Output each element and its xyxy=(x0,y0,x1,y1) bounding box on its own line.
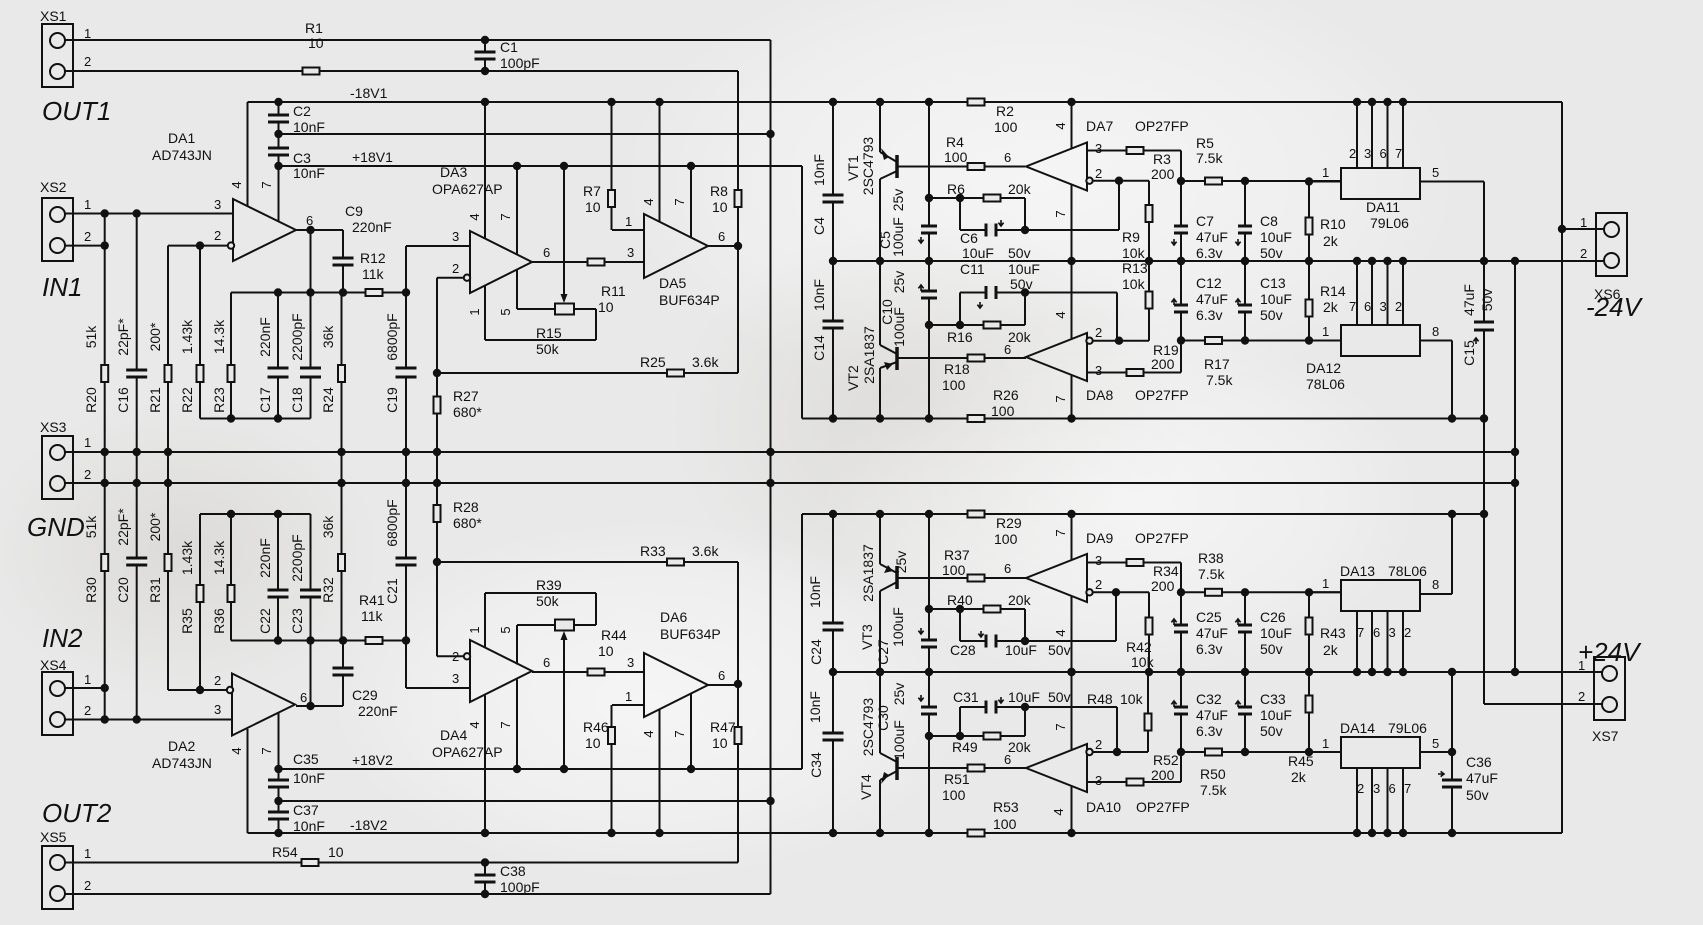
junction xyxy=(1067,414,1075,422)
svg-text:OUT1: OUT1 xyxy=(42,96,111,126)
svg-text:R18: R18 xyxy=(944,361,970,377)
resistor R45 column xyxy=(1308,672,1310,752)
svg-text:R45: R45 xyxy=(1288,753,1314,769)
wire: DA1 pin7 + C2/C3 stack xyxy=(278,102,280,222)
resistor R35 xyxy=(197,585,204,602)
resistor R52 xyxy=(1127,779,1144,786)
wire: DA14 pin5 xyxy=(1420,751,1452,753)
wire: +18V2 rail y769 xyxy=(279,768,803,770)
junction xyxy=(829,668,837,676)
svg-text:7: 7 xyxy=(1053,395,1068,402)
junction xyxy=(1241,588,1249,596)
wire: OUT1 pin2 net with R1 xyxy=(65,70,739,72)
junction xyxy=(687,162,695,170)
svg-text:C6: C6 xyxy=(960,230,978,246)
svg-text:47uF: 47uF xyxy=(1196,625,1228,641)
svg-text:C12: C12 xyxy=(1196,275,1222,291)
wire: DA13 pin8 xyxy=(1420,593,1452,595)
svg-text:C19: C19 xyxy=(384,387,400,413)
svg-text:XS5: XS5 xyxy=(40,829,67,845)
junction xyxy=(274,130,282,138)
svg-text:100: 100 xyxy=(942,787,966,803)
capacitor C10 column x929 (100uF 25v) xyxy=(928,261,930,419)
wire: +24V rail top block y418 xyxy=(802,418,1484,420)
junction xyxy=(1021,703,1029,711)
junction xyxy=(274,829,282,837)
wire: DA5 pin4 xyxy=(659,102,661,222)
junction xyxy=(925,194,933,202)
resistor R2 xyxy=(968,99,985,106)
svg-text:6: 6 xyxy=(1364,299,1371,314)
svg-text:10: 10 xyxy=(308,35,324,51)
svg-text:R6: R6 xyxy=(947,181,965,197)
junction xyxy=(227,510,235,518)
svg-text:2SA1837: 2SA1837 xyxy=(860,544,876,602)
wire: R24/R32 column x341 xyxy=(341,293,343,641)
svg-text:25v: 25v xyxy=(891,683,907,706)
resistor R30 xyxy=(101,554,108,571)
svg-text:C25: C25 xyxy=(1196,609,1222,625)
svg-text:50v: 50v xyxy=(1260,307,1283,323)
capacitor C8 xyxy=(1238,227,1252,232)
capacitor C21 xyxy=(396,559,417,564)
resistor R3 xyxy=(1127,147,1144,154)
svg-text:10nF: 10nF xyxy=(811,154,827,186)
svg-text:R54: R54 xyxy=(272,844,298,860)
op-amp DA4 OPA627AP xyxy=(470,640,532,702)
junction xyxy=(925,321,933,329)
svg-text:C14: C14 xyxy=(811,335,827,361)
wire: DA3 output to R11 to DA5 pin3 xyxy=(532,261,644,263)
wire xyxy=(1387,610,1389,672)
junction xyxy=(1305,668,1313,676)
wire: DA11 top pins 2 3 6 7 xyxy=(1356,102,1358,168)
wire: DA5 pin1 from R7 xyxy=(612,229,644,231)
wire: GND vertical x1515 xyxy=(1514,261,1516,672)
wire xyxy=(880,753,897,762)
svg-text:C15: C15 xyxy=(1461,340,1477,366)
junction xyxy=(1067,98,1075,106)
wire xyxy=(595,309,597,340)
wire: node A row ch1 xyxy=(231,292,406,294)
op-amp DA7 OP27FP xyxy=(1026,143,1087,191)
svg-text:2: 2 xyxy=(1395,299,1402,314)
svg-text:10nF: 10nF xyxy=(293,165,325,181)
wire xyxy=(1371,610,1373,672)
junction xyxy=(1480,414,1488,422)
wire: +24V rail bottom block y514 xyxy=(802,513,1484,515)
capacitor C12 column xyxy=(1180,261,1182,341)
svg-text:R30: R30 xyxy=(83,577,99,603)
svg-text:50v: 50v xyxy=(1008,245,1031,261)
svg-text:OPA627AP: OPA627AP xyxy=(432,744,503,760)
junction xyxy=(734,242,742,250)
svg-text:R39: R39 xyxy=(536,577,562,593)
junction xyxy=(337,448,345,456)
svg-text:4: 4 xyxy=(1053,311,1068,318)
faint background watermark xyxy=(620,0,1460,410)
wire: +18V1 feed down x802 xyxy=(801,166,803,419)
junction xyxy=(101,241,109,249)
svg-text:R29: R29 xyxy=(996,515,1022,531)
wire: DA10 pin4 xyxy=(1071,786,1073,833)
wire: DA14 bottom pins 2 3 6 7 xyxy=(1356,768,1358,833)
junction xyxy=(1511,257,1519,265)
junction xyxy=(481,858,489,866)
svg-text:10uF: 10uF xyxy=(1260,625,1292,641)
svg-text:4: 4 xyxy=(229,747,244,754)
resistor R46 column xyxy=(611,705,613,833)
svg-text:3.6k: 3.6k xyxy=(692,354,719,370)
svg-text:11k: 11k xyxy=(361,608,384,624)
wire xyxy=(1387,768,1389,833)
svg-text:2k: 2k xyxy=(1323,299,1339,315)
resistor R24 xyxy=(338,365,345,382)
wire: loop left leg xyxy=(959,609,961,641)
wire: +24V vertical x1484 xyxy=(1483,419,1485,705)
resistor R25 xyxy=(667,370,684,377)
svg-text:R27: R27 xyxy=(453,388,479,404)
junction xyxy=(687,765,695,773)
svg-text:100: 100 xyxy=(991,403,1015,419)
svg-text:DA2: DA2 xyxy=(168,738,195,754)
svg-text:3: 3 xyxy=(452,671,459,686)
svg-text:DA8: DA8 xyxy=(1086,387,1113,403)
svg-text:R52: R52 xyxy=(1153,752,1179,768)
resistor R42 xyxy=(1146,618,1153,635)
svg-text:10uF: 10uF xyxy=(1260,291,1292,307)
capacitor C11 xyxy=(987,286,995,299)
svg-text:22pF*: 22pF* xyxy=(115,318,131,356)
wire: DA12 pin1 xyxy=(1309,340,1341,342)
junction xyxy=(1177,336,1185,344)
svg-text:2k: 2k xyxy=(1323,642,1339,658)
svg-text:DA7: DA7 xyxy=(1086,118,1113,134)
junction xyxy=(925,257,933,265)
junction xyxy=(876,829,884,837)
resistor R7 column xyxy=(611,102,613,230)
node: R22 top junction xyxy=(196,241,204,249)
resistor R45 xyxy=(1306,696,1313,713)
resistor R4 xyxy=(968,163,985,170)
wire: DA3 pin2 from R25 node xyxy=(437,277,465,279)
resistor R22 xyxy=(197,365,204,382)
wire: loop left leg xyxy=(959,707,961,736)
wire xyxy=(574,624,596,626)
svg-text:47uF: 47uF xyxy=(1196,229,1228,245)
junction xyxy=(274,162,282,170)
junction xyxy=(1305,336,1313,344)
svg-text:20k: 20k xyxy=(1008,739,1032,755)
junction xyxy=(1448,829,1456,837)
junction xyxy=(1368,98,1376,106)
wire: DA4 pin3 connection xyxy=(406,687,470,689)
svg-text:2200pF: 2200pF xyxy=(289,313,305,360)
junction xyxy=(876,510,884,518)
svg-text:XS7: XS7 xyxy=(1592,728,1619,744)
junction xyxy=(1511,479,1519,487)
resistor R47 xyxy=(735,727,742,744)
wire: XS2 pin2 stub xyxy=(65,245,105,247)
wire xyxy=(1451,341,1453,419)
capacitor C25 xyxy=(1174,626,1188,631)
svg-text:100: 100 xyxy=(944,149,968,165)
junction xyxy=(1511,668,1519,676)
junction xyxy=(274,765,282,773)
capacitor C7 column xyxy=(1180,181,1182,261)
svg-text:6: 6 xyxy=(543,655,550,670)
junction xyxy=(1305,748,1313,756)
wire xyxy=(1371,261,1373,325)
svg-text:50v: 50v xyxy=(1479,289,1495,312)
capacitor C14 xyxy=(823,322,844,327)
junction xyxy=(1067,257,1075,265)
capacitor C15 47uF 50v xyxy=(1483,261,1485,419)
wire: loop right leg xyxy=(1024,707,1026,736)
wire xyxy=(485,592,596,594)
capacitor C33 xyxy=(1238,708,1252,713)
capacitor C30 column x929 (100uF 25v) xyxy=(928,672,930,833)
svg-text:R10: R10 xyxy=(1320,216,1346,232)
svg-text:6: 6 xyxy=(300,690,307,705)
resistor R37 xyxy=(968,575,985,582)
svg-text:OPA627AP: OPA627AP xyxy=(432,181,503,197)
wire: XS2 pin1 to DA1 pin3 xyxy=(65,213,234,215)
wire xyxy=(879,368,881,419)
svg-text:4: 4 xyxy=(641,198,656,205)
svg-text:1: 1 xyxy=(1322,736,1329,751)
junction xyxy=(433,558,441,566)
op-amp DA1 AD743JN xyxy=(233,199,296,261)
capacitor C37 xyxy=(268,813,289,818)
wire xyxy=(517,624,555,626)
junction xyxy=(1021,226,1029,234)
svg-text:1: 1 xyxy=(1322,324,1329,339)
svg-text:22pF*: 22pF* xyxy=(115,508,131,546)
wire xyxy=(1387,261,1389,325)
junction xyxy=(1448,748,1456,756)
wire: DA10 pin7 xyxy=(1071,672,1073,751)
svg-text:6: 6 xyxy=(1004,342,1011,357)
svg-text:R5: R5 xyxy=(1196,135,1214,151)
resistor R5 xyxy=(1205,178,1222,185)
svg-text:3: 3 xyxy=(1095,553,1102,568)
wire: C17 column xyxy=(277,293,279,419)
svg-text:47uF: 47uF xyxy=(1196,291,1228,307)
junction xyxy=(956,732,964,740)
wire xyxy=(342,641,344,707)
junction xyxy=(1067,668,1075,676)
svg-text:R16: R16 xyxy=(947,329,973,345)
svg-text:2: 2 xyxy=(214,228,221,243)
resistor R11 xyxy=(588,259,605,266)
svg-text:R44: R44 xyxy=(601,627,627,643)
wire xyxy=(880,171,897,179)
regulator DA14 79L06 xyxy=(1341,737,1420,768)
svg-text:7: 7 xyxy=(1357,625,1364,640)
junction xyxy=(1511,448,1519,456)
wire: DA3 pin2 down to R25 row xyxy=(436,278,438,373)
svg-text:1: 1 xyxy=(625,689,632,704)
capacitor C32 xyxy=(1174,708,1188,713)
wire: loop right leg xyxy=(1024,293,1026,326)
wire: DA1 pin4 xyxy=(247,102,249,206)
svg-text:R32: R32 xyxy=(320,577,336,603)
wire: node A row ch2 xyxy=(231,640,406,642)
wire: loop left leg xyxy=(959,198,961,230)
wire: R21/R31 column x168 xyxy=(167,246,169,690)
svg-text:100uF: 100uF xyxy=(890,607,906,647)
wire: loop right leg xyxy=(1024,198,1026,230)
junction xyxy=(433,479,441,487)
wire: C6 to pin2 leg xyxy=(996,229,1119,231)
junction xyxy=(876,257,884,265)
svg-text:79L06: 79L06 xyxy=(1370,215,1409,231)
wire: C19/C21 column x406 xyxy=(405,246,407,688)
svg-text:100uF: 100uF xyxy=(891,307,907,347)
svg-text:R20: R20 xyxy=(83,387,99,413)
junction xyxy=(1353,668,1361,676)
wire xyxy=(485,339,596,341)
resistor R12 xyxy=(366,289,383,296)
svg-text:7: 7 xyxy=(1053,529,1068,536)
junction xyxy=(925,732,933,740)
resistor R7 xyxy=(608,190,615,207)
wire: to C11 xyxy=(960,292,986,294)
svg-text:6: 6 xyxy=(1004,561,1011,576)
svg-text:10k: 10k xyxy=(1120,691,1144,707)
svg-text:10uF: 10uF xyxy=(1005,642,1037,658)
svg-text:1: 1 xyxy=(84,846,91,861)
svg-text:+18V1: +18V1 xyxy=(352,149,393,165)
wire: to DA3 pin3 xyxy=(406,245,470,247)
junction xyxy=(1241,748,1249,756)
junction xyxy=(1021,288,1029,296)
junction xyxy=(925,414,933,422)
svg-text:200: 200 xyxy=(1151,166,1175,182)
junction xyxy=(1399,98,1407,106)
capacitor C7 xyxy=(1174,227,1188,232)
wire xyxy=(516,625,518,665)
svg-text:DA12: DA12 xyxy=(1306,360,1341,376)
svg-text:14.3k: 14.3k xyxy=(211,319,227,354)
svg-text:50v: 50v xyxy=(1048,642,1071,658)
svg-text:10: 10 xyxy=(328,844,344,860)
svg-text:10uF: 10uF xyxy=(1008,261,1040,277)
wire xyxy=(595,593,597,625)
svg-text:10uF: 10uF xyxy=(1260,229,1292,245)
junction xyxy=(1383,257,1391,265)
svg-text:R9: R9 xyxy=(1122,229,1140,245)
wire: R17 row xyxy=(1181,340,1341,342)
wire: GND mid rail bottom block y672 xyxy=(833,671,1602,673)
capacitor C17 xyxy=(268,369,289,376)
junction xyxy=(876,414,884,422)
resistor R33 xyxy=(667,559,684,566)
junction xyxy=(956,321,964,329)
wire: to C31 xyxy=(960,706,986,708)
regulator DA12 78L06 xyxy=(1341,325,1420,356)
svg-text:5: 5 xyxy=(498,626,513,633)
svg-text:50v: 50v xyxy=(1260,723,1283,739)
wire: loop left leg xyxy=(959,293,961,326)
junction xyxy=(1480,257,1488,265)
wire: DA5 output down to R25 row xyxy=(737,246,739,373)
junction xyxy=(274,636,282,644)
svg-text:XS2: XS2 xyxy=(40,179,67,195)
capacitor C36 47uF 50v xyxy=(1451,672,1453,833)
wire: GND mid rail top block y261 xyxy=(833,260,1604,262)
wire: DA3 pin4 xyxy=(484,102,486,239)
transistor VT4 2SC4793 xyxy=(879,672,881,753)
svg-text:25v: 25v xyxy=(890,189,906,212)
junction xyxy=(734,680,742,688)
junction xyxy=(1177,748,1185,756)
junction xyxy=(1353,829,1361,837)
capacitor C16 xyxy=(126,371,147,376)
junction xyxy=(1368,257,1376,265)
svg-text:C7: C7 xyxy=(1196,213,1214,229)
wire xyxy=(1371,768,1373,833)
junction xyxy=(956,194,964,202)
junction xyxy=(1353,257,1361,265)
wire: XS5 pin1 net with R54 xyxy=(65,862,739,864)
svg-text:100: 100 xyxy=(942,562,966,578)
junction xyxy=(1113,748,1121,756)
svg-text:R14: R14 xyxy=(1320,283,1346,299)
R40/C28 loop for DA9 xyxy=(929,608,1025,610)
svg-text:R48: R48 xyxy=(1087,691,1113,707)
wire: DA11 pin1 xyxy=(1309,181,1341,183)
svg-text:4: 4 xyxy=(1053,629,1068,636)
op-amp DA6 BUF634P xyxy=(644,653,708,717)
svg-text:36k: 36k xyxy=(320,325,336,349)
junction xyxy=(1383,829,1391,837)
wire: R1 line down through R8 to DA5 output xyxy=(737,71,739,246)
wire: XS4 pin1 stub xyxy=(65,687,105,689)
svg-text:10nF: 10nF xyxy=(807,691,823,723)
svg-text:78L06: 78L06 xyxy=(1306,376,1345,392)
svg-text:DA1: DA1 xyxy=(168,130,195,146)
svg-text:C27: C27 xyxy=(875,639,891,665)
svg-text:OP27FP: OP27FP xyxy=(1135,118,1189,134)
connector XS7 xyxy=(1594,657,1625,720)
wire: R36 column xyxy=(230,514,232,641)
wire: DA7 pin2 row xyxy=(1093,180,1149,182)
svg-text:6800pF: 6800pF xyxy=(384,499,400,546)
wire: R19 corner up xyxy=(1180,341,1182,373)
svg-text:6.3v: 6.3v xyxy=(1196,307,1222,323)
junction xyxy=(655,98,663,106)
wire: GND rail XS3 pin2 y483 xyxy=(65,482,1516,484)
svg-text:2: 2 xyxy=(1580,246,1587,261)
junction xyxy=(1241,257,1249,265)
junction xyxy=(1067,829,1075,837)
svg-text:10nF: 10nF xyxy=(811,279,827,311)
wire xyxy=(516,270,518,310)
svg-text:100: 100 xyxy=(994,531,1018,547)
svg-text:50k: 50k xyxy=(536,341,560,357)
resistor R50 xyxy=(1205,749,1222,756)
resistor R17 xyxy=(1205,337,1222,344)
svg-text:1: 1 xyxy=(1580,215,1587,230)
wire: DA9 pin4 xyxy=(1071,597,1073,673)
junction xyxy=(1241,336,1249,344)
svg-text:2: 2 xyxy=(452,261,459,276)
regulator DA11 79L06 xyxy=(1341,168,1420,199)
resistor R31 xyxy=(165,554,172,571)
svg-text:7: 7 xyxy=(1349,299,1356,314)
